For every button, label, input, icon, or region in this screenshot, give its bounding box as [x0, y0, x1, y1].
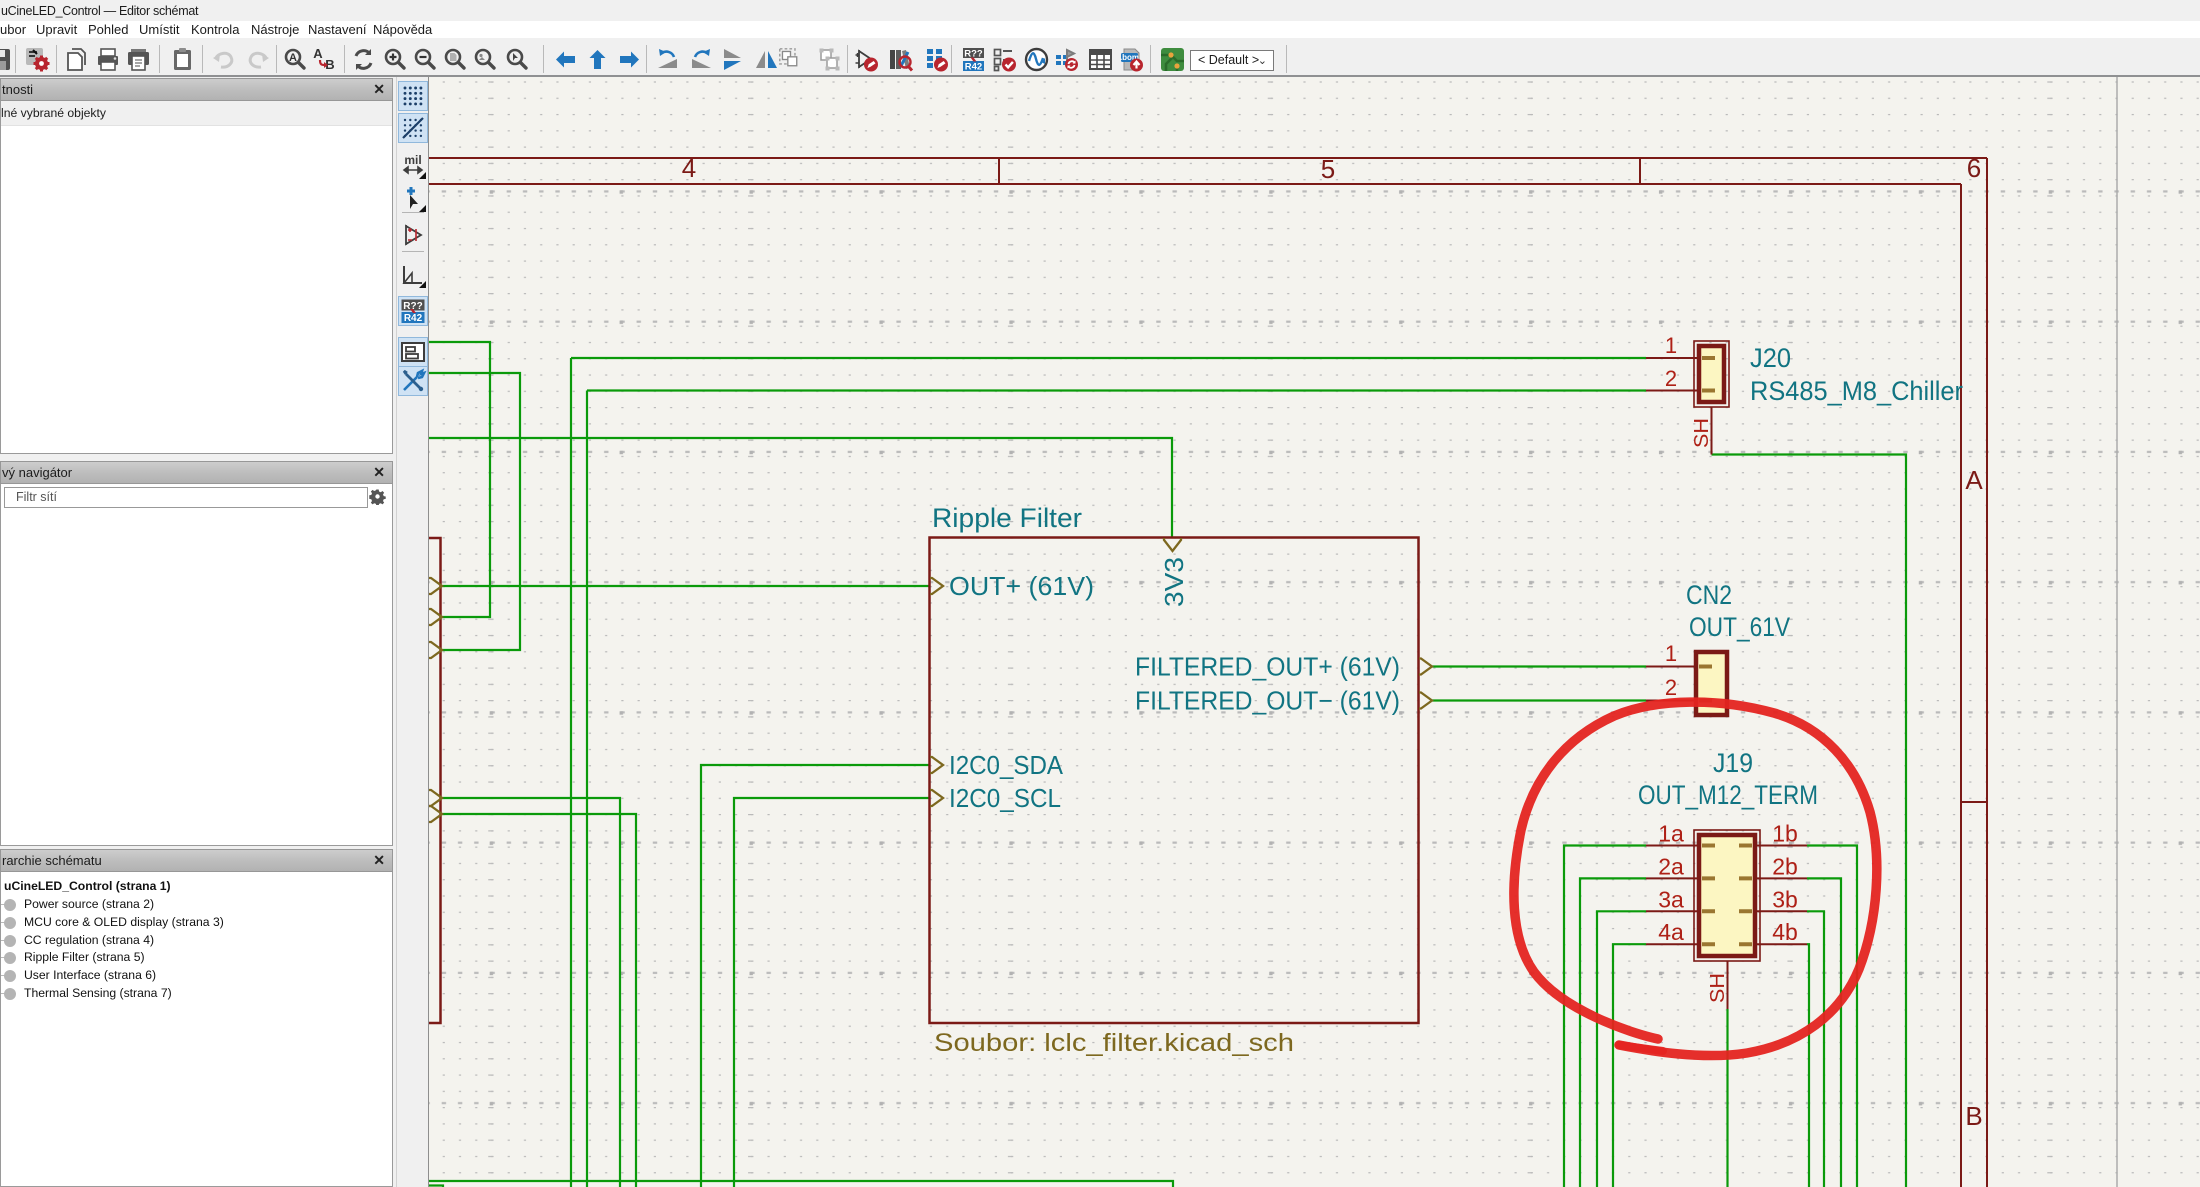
- svg-text:2a: 2a: [1658, 853, 1684, 879]
- svg-text:4: 4: [682, 153, 696, 183]
- svg-text:6: 6: [1967, 153, 1981, 183]
- svg-text:4a: 4a: [1658, 919, 1684, 945]
- svg-text:5: 5: [1321, 154, 1335, 184]
- svg-text:2b: 2b: [1772, 853, 1798, 879]
- svg-text:CN2: CN2: [1686, 580, 1732, 610]
- svg-text:Ripple Filter: Ripple Filter: [932, 503, 1082, 533]
- svg-text:A: A: [1965, 465, 1983, 495]
- svg-text:FILTERED_OUT+ (61V): FILTERED_OUT+ (61V): [1135, 652, 1400, 682]
- svg-text:J20: J20: [1750, 343, 1791, 373]
- svg-text:1a: 1a: [1658, 821, 1684, 847]
- svg-text:4b: 4b: [1772, 919, 1798, 945]
- svg-text:R42: R42: [404, 313, 423, 324]
- svg-text:Soubor: lclc_filter.kicad_sch: Soubor: lclc_filter.kicad_sch: [934, 1029, 1294, 1057]
- svg-text:R42: R42: [965, 62, 982, 73]
- svg-text:B: B: [1965, 1101, 1982, 1131]
- svg-text:3V3: 3V3: [1159, 557, 1189, 607]
- svg-text:1b: 1b: [1772, 821, 1798, 847]
- svg-text:3b: 3b: [1772, 886, 1798, 912]
- svg-text:FILTERED_OUT− (61V): FILTERED_OUT− (61V): [1135, 686, 1400, 716]
- svg-text:1: 1: [1665, 333, 1677, 358]
- svg-text:mil: mil: [404, 153, 421, 167]
- svg-text:OUT_M12_TERM: OUT_M12_TERM: [1638, 780, 1818, 810]
- svg-text:OUT_61V: OUT_61V: [1689, 612, 1790, 642]
- svg-text:OUT+ (61V): OUT+ (61V): [949, 571, 1094, 601]
- svg-text:2: 2: [1665, 675, 1677, 700]
- svg-text:A: A: [313, 47, 323, 61]
- svg-text:RS485_M8_Chiller: RS485_M8_Chiller: [1750, 376, 1963, 406]
- svg-text:J19: J19: [1713, 748, 1753, 778]
- svg-text:SH: SH: [1707, 973, 1729, 1003]
- svg-text:2: 2: [1665, 366, 1677, 391]
- svg-text:A: A: [289, 52, 297, 64]
- svg-text:3a: 3a: [1658, 886, 1684, 912]
- svg-text:I2C0_SDA: I2C0_SDA: [949, 750, 1064, 780]
- svg-text:1: 1: [1665, 641, 1677, 666]
- svg-text:I2C0_SCL: I2C0_SCL: [949, 783, 1061, 813]
- svg-text:SH: SH: [1691, 418, 1713, 448]
